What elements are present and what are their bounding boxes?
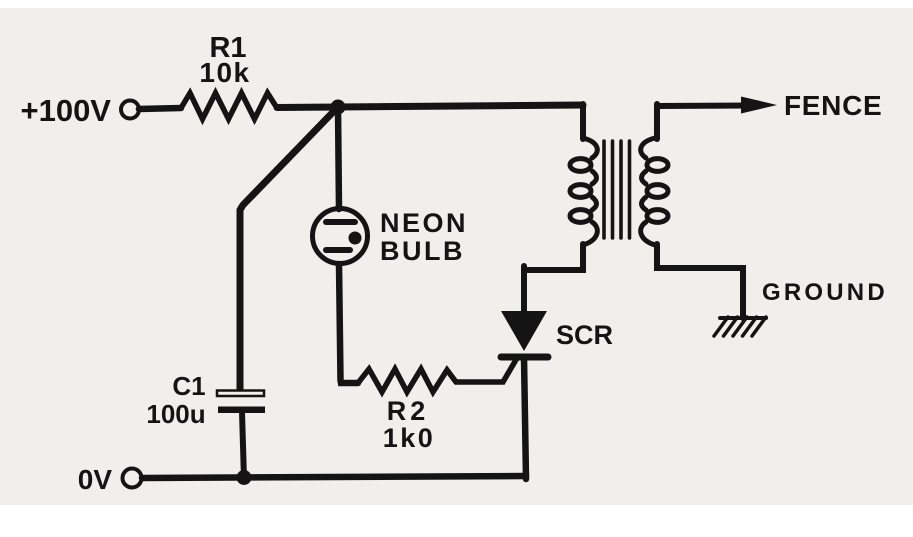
wire R2 to SCR gate <box>456 358 517 382</box>
svg-text:GROUND: GROUND <box>762 279 888 306</box>
node junction top <box>331 100 346 115</box>
svg-text:100u: 100u <box>146 399 205 429</box>
wire secondary bottom to ground <box>657 244 743 318</box>
neon bulb <box>313 209 368 264</box>
wire junction to neon bulb <box>338 107 339 209</box>
transformer T1 secondary coil <box>647 159 668 172</box>
svg-text:SCR: SCR <box>556 320 613 350</box>
transformer core <box>602 141 606 238</box>
wire R1 to transformer (top rail) <box>277 105 583 108</box>
svg-text:10k: 10k <box>199 57 250 88</box>
wire diagonal junction to C1 <box>240 109 336 391</box>
svg-text:+100V: +100V <box>20 93 111 128</box>
transistor SCR (thyristor) <box>521 266 527 315</box>
resistor R2 <box>358 369 456 392</box>
node junction bottom <box>237 470 252 485</box>
wire terminal to R1 <box>139 108 181 109</box>
svg-text:FENCE: FENCE <box>784 90 882 121</box>
wire bottom rail <box>142 476 526 478</box>
terminal +100V <box>121 101 139 119</box>
transformer T1 primary lead top <box>580 104 586 139</box>
wire neon to R2 <box>339 264 358 383</box>
svg-text:BULB: BULB <box>380 236 465 266</box>
capacitor C1 <box>217 391 264 397</box>
transformer secondary lead top <box>654 104 660 139</box>
svg-text:NEON: NEON <box>380 208 468 238</box>
svg-text:0V: 0V <box>78 464 113 495</box>
ground <box>720 316 766 320</box>
transformer T1 primary coil <box>570 159 591 172</box>
wire primary bottom to SCR <box>524 244 583 270</box>
wire fence arrow <box>657 103 750 110</box>
svg-text:1k0: 1k0 <box>383 423 436 453</box>
resistor R1 <box>181 93 277 119</box>
svg-text:R2: R2 <box>387 396 430 426</box>
svg-text:C1: C1 <box>172 371 205 401</box>
terminal 0V <box>123 469 142 488</box>
